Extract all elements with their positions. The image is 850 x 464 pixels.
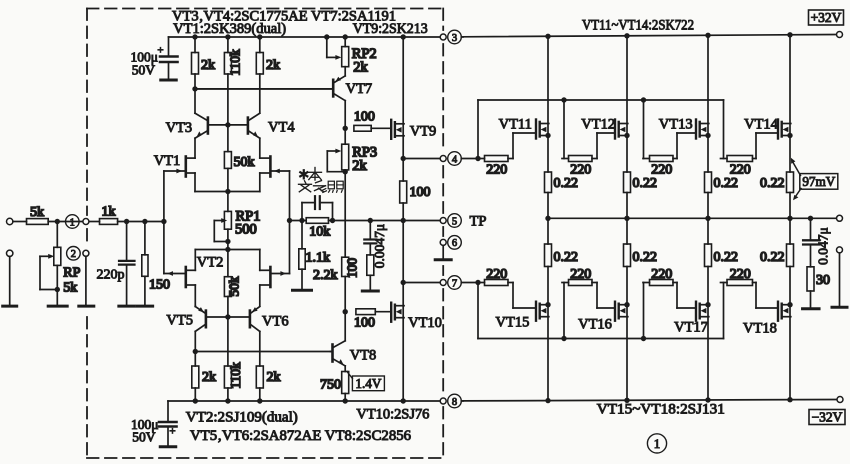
node RP3 bottom junction <box>343 169 348 174</box>
svg-text:−32V: −32V <box>812 409 843 424</box>
potentiometer RP3 2k <box>327 128 377 174</box>
svg-text:100: 100 <box>354 110 375 125</box>
resistor 0.22 VT17 source <box>705 218 739 304</box>
svg-text:110k: 110k <box>228 362 243 389</box>
wire TP line <box>290 220 441 222</box>
resistor 220 VT12 gate <box>562 156 597 178</box>
svg-text:VT3: VT3 <box>166 120 193 136</box>
svg-text:0.22: 0.22 <box>760 250 785 265</box>
node terminal 4 <box>440 152 478 166</box>
svg-text:220: 220 <box>651 267 672 282</box>
wire VT10 source to terminal 7 <box>403 282 440 284</box>
svg-text:5k: 5k <box>63 281 77 296</box>
svg-text:10k: 10k <box>309 225 330 240</box>
node VT10 source / terminal 7 junction <box>401 280 406 285</box>
resistor 0.22 VT14 source <box>760 136 794 219</box>
transistor VT4 <box>228 113 295 138</box>
ground bottom cap <box>160 445 176 448</box>
svg-text:VT18: VT18 <box>743 321 777 337</box>
resistor 220 VT17 gate <box>643 267 677 286</box>
resistor 100 VT9 gate <box>354 110 391 132</box>
wire gate riser input side <box>161 171 166 274</box>
resistor 0.22 VT13 source <box>705 136 739 219</box>
svg-text:1: 1 <box>654 436 661 451</box>
svg-text:150: 150 <box>149 278 170 293</box>
svg-text:5: 5 <box>452 216 457 227</box>
wire upper bus drops <box>564 100 644 159</box>
ground speaker return <box>832 306 847 309</box>
node terminal 7 <box>440 276 478 290</box>
node upper bus junctions <box>561 97 646 102</box>
svg-text:97mV: 97mV <box>802 174 835 189</box>
resistor 220 VT14 gate <box>721 156 757 178</box>
resistor 2k lower-right <box>256 366 280 401</box>
node VT3/VT4 base junction <box>225 122 230 127</box>
svg-text:2.2k: 2.2k <box>313 268 338 283</box>
ground 150 <box>137 305 153 308</box>
svg-text:50V: 50V <box>132 430 156 445</box>
transistor VT1 dual FET right <box>228 138 290 191</box>
svg-text:4: 4 <box>452 154 458 165</box>
node terminal 5 TP <box>440 214 486 230</box>
svg-text:1.1k: 1.1k <box>306 251 331 266</box>
wire lower bus risers <box>564 283 644 339</box>
node VT10 gate junction <box>343 309 348 314</box>
resistor 150 <box>142 219 170 305</box>
svg-text:VT15: VT15 <box>496 315 530 331</box>
transistor VT15 MOSFET <box>496 283 551 401</box>
svg-text:3: 3 <box>452 33 457 44</box>
svg-text:VT17: VT17 <box>674 320 708 336</box>
+32V supply terminal <box>809 10 844 38</box>
label top parts annotation line2 <box>173 21 286 37</box>
resistor 30 zobel <box>807 267 830 308</box>
annotation hanzi ben <box>309 168 322 181</box>
transistor VT6 <box>228 307 289 367</box>
svg-text:750: 750 <box>320 378 341 393</box>
svg-text:1: 1 <box>70 217 75 228</box>
label VT11-VT14 type <box>582 18 694 34</box>
node input/RP junction <box>55 219 60 224</box>
svg-text:+32V: +32V <box>811 10 842 25</box>
transistor VT17 MOSFET <box>674 283 711 400</box>
svg-text:30: 30 <box>816 273 830 288</box>
label VT9 type <box>353 21 428 37</box>
transistor VT7 <box>195 67 372 129</box>
svg-text:VT1: VT1 <box>154 153 181 169</box>
svg-text:220: 220 <box>651 163 672 178</box>
node VT3 collector / 2k junction <box>192 86 197 91</box>
node VT2 sources junction <box>225 247 230 252</box>
svg-text:VT7: VT7 <box>346 81 373 97</box>
capacitor 0.0047u <box>364 218 387 268</box>
label 97mV callout <box>791 158 838 201</box>
svg-text:VT5: VT5 <box>166 313 193 329</box>
potentiometer RP1 500 <box>214 192 260 242</box>
transistor VT14 MOSFET <box>744 35 793 159</box>
svg-text:VT10:2SJ76: VT10:2SJ76 <box>356 406 429 422</box>
svg-text:0.22: 0.22 <box>554 176 579 191</box>
svg-text:TP: TP <box>470 214 487 230</box>
resistor 110k upper <box>224 37 242 125</box>
node VT9 source / terminal 4 junction <box>401 156 406 161</box>
ground 220p <box>119 305 135 308</box>
ground terminal 6 <box>435 258 451 261</box>
svg-text:2k: 2k <box>201 58 215 73</box>
annotation hanzi wen <box>299 181 312 192</box>
transistor VT2 dual FET left <box>164 250 228 306</box>
svg-text:0.22: 0.22 <box>633 176 658 191</box>
wire VT5-collector to VT8 base <box>195 351 330 353</box>
resistor 0.22 VT15 source <box>545 218 579 304</box>
svg-text:5k: 5k <box>30 205 44 220</box>
svg-text:6: 6 <box>452 238 457 249</box>
transistor VT5 <box>166 306 228 352</box>
node terminal 6 <box>440 236 461 260</box>
svg-text:50k: 50k <box>227 276 242 297</box>
svg-text:2k: 2k <box>353 60 368 76</box>
label top parts annotation line1 <box>172 8 396 24</box>
node terminal 8 <box>440 394 463 408</box>
svg-text:100: 100 <box>354 316 375 331</box>
node VT7 collector junction <box>343 126 348 131</box>
svg-text:220: 220 <box>486 267 507 282</box>
annotation star note <box>298 167 311 183</box>
resistor 220 VT16 gate <box>562 267 597 286</box>
resistor 0.22 VT18 source <box>760 218 794 304</box>
capacitor 0.047u zobel <box>803 218 831 266</box>
resistor 750 <box>320 366 349 401</box>
resistor 2k lower-left <box>192 352 216 402</box>
svg-text:+: + <box>169 426 175 438</box>
resistor 50k upper <box>224 125 254 192</box>
svg-text:VT1:2SK389(dual): VT1:2SK389(dual) <box>173 21 286 37</box>
svg-text:0.22: 0.22 <box>714 250 739 265</box>
wire TP chain down <box>402 221 404 283</box>
svg-text:1k: 1k <box>102 204 116 219</box>
svg-text:2k: 2k <box>202 370 216 385</box>
svg-text:VT11~VT14:2SK722: VT11~VT14:2SK722 <box>582 18 694 34</box>
wire VT9 source to terminal 4 <box>403 158 440 160</box>
resistor 100 TP upper <box>400 159 431 221</box>
transistor VT2 dual FET right <box>228 250 290 306</box>
svg-text:VT6: VT6 <box>262 314 289 330</box>
svg-text:RP: RP <box>63 266 80 281</box>
svg-text:50V: 50V <box>132 63 156 78</box>
resistor 5k input <box>27 205 49 224</box>
node VT5/VT6 base junction <box>225 314 230 319</box>
svg-text:2: 2 <box>71 249 76 260</box>
resistor 1.1k/2.2k shunt <box>299 221 338 290</box>
speaker return terminal <box>837 247 843 306</box>
input terminal 2 <box>7 250 13 305</box>
capacitor across 10k <box>299 196 335 223</box>
node RP1 bottom junction <box>225 239 230 244</box>
svg-text:VT10: VT10 <box>408 315 442 331</box>
resistor 220 VT15 gate <box>478 267 513 286</box>
svg-text:2k: 2k <box>352 158 367 174</box>
resistor 1k <box>100 204 118 224</box>
svg-text:VT12: VT12 <box>581 117 615 133</box>
svg-text:VT16: VT16 <box>578 317 612 333</box>
node 2 terminal <box>67 247 89 306</box>
transistor VT1 dual FET left <box>154 153 228 192</box>
ground top cap <box>161 79 177 82</box>
svg-text:110k: 110k <box>227 49 242 76</box>
wire output bus <box>548 217 837 219</box>
transistor VT13 MOSFET <box>659 35 711 158</box>
svg-text:VT4: VT4 <box>268 120 295 136</box>
wire feedback gate riser <box>287 171 292 274</box>
label VT10 type <box>356 406 429 422</box>
svg-text:0.22: 0.22 <box>714 176 739 191</box>
resistor 0.22 VT12 source <box>624 136 658 219</box>
transistor VT8 <box>331 312 377 366</box>
svg-text:220: 220 <box>570 163 591 178</box>
wire input line <box>13 221 164 223</box>
svg-text:220: 220 <box>730 267 751 282</box>
capacitor 220p <box>97 219 135 305</box>
svg-text:500: 500 <box>235 222 257 238</box>
ground RP <box>48 305 67 308</box>
svg-text:+: + <box>157 45 163 57</box>
ground 0.0047u branch <box>362 290 378 293</box>
resistor 100 VT10 gate <box>354 309 391 331</box>
dashed enclosure box of amplifier board <box>87 9 443 459</box>
node terminal4 wire junction <box>475 156 480 161</box>
label VT2 type <box>186 409 298 425</box>
svg-text:VT9:2SK213: VT9:2SK213 <box>353 21 428 37</box>
svg-text:8: 8 <box>452 397 457 408</box>
svg-text:VT9: VT9 <box>410 124 437 140</box>
transistor VT11 MOSFET <box>499 36 551 158</box>
wire lower gate bias bus <box>478 283 724 339</box>
resistor 10k feedback <box>306 218 330 240</box>
resistor 50k lower <box>224 250 241 318</box>
-32V supply terminal <box>809 397 845 425</box>
label VT5/VT6/VT8 types <box>190 428 411 444</box>
node top rail junctions <box>192 32 792 40</box>
node VT5 collector junction <box>193 349 198 354</box>
resistor 220 VT18 gate <box>721 267 757 286</box>
potentiometer RP 5k <box>40 222 81 306</box>
svg-text:VT14: VT14 <box>744 117 779 133</box>
wire VAS chain down <box>344 172 346 258</box>
node bottom rail junctions <box>193 397 793 404</box>
svg-text:100: 100 <box>410 185 431 200</box>
annotation hanzi can <box>314 181 327 193</box>
svg-text:2k: 2k <box>267 370 281 385</box>
wire upper gate bias bus <box>478 100 724 159</box>
resistor 0.22 VT11 source <box>545 136 579 219</box>
ground 1.1k <box>293 289 312 292</box>
resistor 100 series with 0.0047u <box>367 255 374 290</box>
transistor VT3 <box>166 89 228 158</box>
transistor VT12 MOSFET <box>581 36 629 159</box>
wire +32V top rail <box>169 35 837 38</box>
wire RP1 to VT2 sources <box>227 242 229 250</box>
transistor VT18 MOSFET <box>743 283 793 400</box>
capacitor 100u/50V bottom electrolytic <box>131 401 177 445</box>
resistor 2k upper-right <box>256 37 280 113</box>
output terminal <box>837 215 843 221</box>
capacitor 100u/50V top electrolytic <box>131 37 178 79</box>
ground zobel <box>803 307 820 310</box>
svg-text:220: 220 <box>730 163 751 178</box>
node terminal7 wire junction <box>475 280 480 285</box>
svg-text:VT8: VT8 <box>350 348 377 364</box>
svg-text:VT13: VT13 <box>659 117 693 133</box>
svg-text:VT15~VT18:2SJ131: VT15~VT18:2SJ131 <box>597 402 725 418</box>
resistor 0.22 VT16 source <box>624 218 658 304</box>
label 1.4V callout <box>347 372 384 392</box>
svg-text:2k: 2k <box>266 58 280 73</box>
input terminal 1 <box>7 218 13 224</box>
transistor VT9 MOSFET <box>391 37 436 159</box>
svg-text:220p: 220p <box>97 268 125 283</box>
node lower bus junctions <box>561 336 646 341</box>
label figure number 1 <box>647 434 666 453</box>
resistor 100 VAS chain <box>342 257 360 312</box>
resistor 2k upper-left <box>192 37 216 89</box>
wire -32V bottom rail <box>168 400 837 402</box>
node TP junction <box>401 218 406 223</box>
svg-text:VT5‚VT6:2SA872AE VT8:2SC2856: VT5‚VT6:2SA872AE VT8:2SC2856 <box>190 428 411 444</box>
node VT1 sources junction <box>225 189 230 194</box>
svg-text:220: 220 <box>570 267 591 282</box>
annotation hanzi zhao <box>328 181 343 192</box>
svg-text:220: 220 <box>486 163 507 178</box>
resistor 220 VT13 gate <box>643 156 677 178</box>
svg-text:100: 100 <box>344 258 359 279</box>
svg-text:VT2: VT2 <box>197 255 224 271</box>
wire VT3-collector to VT7 base <box>195 88 332 90</box>
label VT15-VT18 type <box>597 402 725 418</box>
svg-text:50k: 50k <box>234 155 255 170</box>
transistor VT10 MOSFET <box>391 283 442 402</box>
ground node 2 <box>79 305 94 308</box>
node terminal 3 <box>440 30 463 44</box>
svg-text:1.4V: 1.4V <box>355 376 381 391</box>
resistor 220 VT11 gate <box>478 156 513 178</box>
ground input 2 <box>3 305 17 308</box>
svg-text:VT11: VT11 <box>499 117 532 133</box>
svg-text:0.22: 0.22 <box>633 250 658 265</box>
svg-text:0.22: 0.22 <box>760 176 785 191</box>
svg-text:VT2:2SJ109(dual): VT2:2SJ109(dual) <box>186 409 298 425</box>
transistor VT16 MOSFET <box>578 283 630 401</box>
node output bus junctions <box>545 216 813 221</box>
node 1 terminal <box>66 215 89 229</box>
potentiometer RP2 2k <box>327 37 377 76</box>
resistor 110k lower <box>224 317 242 401</box>
svg-text:7: 7 <box>452 278 457 289</box>
svg-text:0.22: 0.22 <box>554 250 579 265</box>
svg-text:0.047μ: 0.047μ <box>816 227 831 265</box>
